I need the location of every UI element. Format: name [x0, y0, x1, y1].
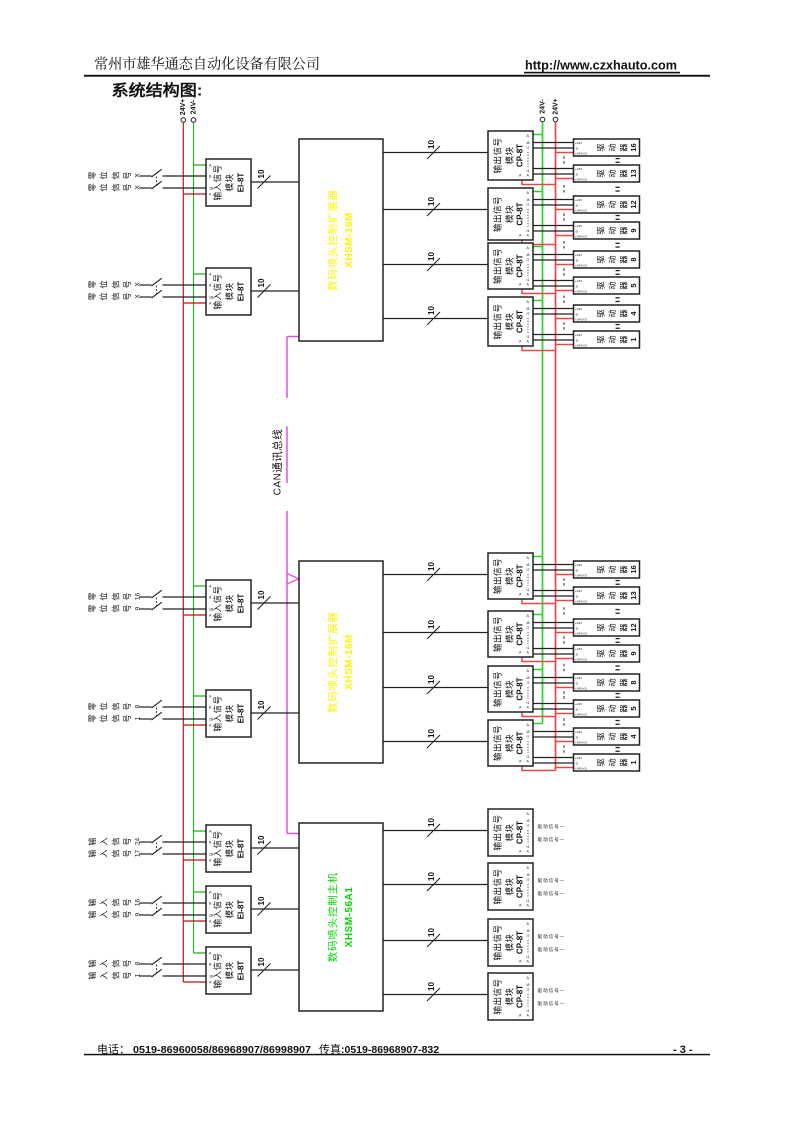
svg-text:信: 信 — [109, 592, 121, 600]
svg-text:10: 10 — [257, 169, 266, 178]
svg-text:CP-8T: CP-8T — [516, 821, 525, 844]
bus slash — [427, 626, 440, 639]
svg-text:驱动信号: 驱动信号 — [538, 836, 560, 843]
svg-text:10: 10 — [257, 835, 266, 844]
svg-text:器: 器 — [618, 200, 630, 208]
bus slash — [258, 964, 271, 977]
svg-text:+24V/+D: +24V/+D — [575, 740, 588, 744]
terminal circle 24V- (left green rail) — [191, 118, 196, 123]
bus slash — [427, 203, 440, 216]
svg-text:I1: I1 — [527, 899, 530, 903]
svg-text:1: 1 — [629, 337, 638, 341]
svg-text:零: 零 — [86, 604, 98, 612]
svg-text:I7: I7 — [527, 312, 530, 316]
svg-text:9: 9 — [135, 606, 142, 610]
wire 24V+ to driver (red) — [556, 178, 574, 180]
svg-text:动: 动 — [606, 226, 618, 234]
svg-text:动: 动 — [606, 309, 618, 317]
wire 24V+ to driver (red) — [556, 344, 574, 346]
driver A-OM4-D4 — [574, 305, 640, 322]
wire 24V+ stub from output module (red) — [522, 766, 556, 771]
svg-text:I7: I7 — [527, 681, 530, 685]
wire to driver — [533, 254, 574, 256]
svg-text:CP-8T: CP-8T — [516, 564, 525, 587]
input module A1 (EI-8T) — [206, 159, 251, 206]
svg-text:I1: I1 — [527, 646, 530, 650]
svg-text:I8: I8 — [527, 929, 530, 933]
svg-text:号: 号 — [121, 183, 133, 191]
wire 24V+ to driver (red) — [556, 741, 574, 743]
wire to driver — [533, 590, 574, 592]
svg-text:器: 器 — [618, 678, 630, 686]
input module C2 (EI-8T) — [206, 886, 251, 933]
switch contact B1b — [152, 602, 162, 610]
svg-text:输: 输 — [86, 971, 98, 979]
switch contact B1a — [152, 590, 162, 598]
wire — [163, 608, 207, 610]
svg-text:零: 零 — [86, 292, 98, 300]
svg-text:号: 号 — [121, 714, 133, 722]
svg-text:I1: I1 — [527, 169, 530, 173]
wire — [140, 841, 152, 843]
output module A-OM3 (CP-8T) — [488, 243, 533, 289]
wire to driver — [533, 731, 574, 733]
svg-text:1B: 1B — [209, 975, 214, 979]
switch contact C1a — [152, 835, 162, 843]
svg-text:动: 动 — [606, 649, 618, 657]
svg-text:模块: 模块 — [504, 567, 516, 585]
svg-text:输出信号: 输出信号 — [492, 815, 504, 851]
svg-text:模块: 模块 — [224, 174, 236, 192]
wire 24V+ stub from output module (red) — [522, 599, 556, 604]
driver A-OM3-D5 — [574, 277, 640, 294]
svg-text:+24V/+D: +24V/+D — [575, 263, 588, 267]
svg-text:信: 信 — [109, 171, 121, 179]
svg-text:1: 1 — [135, 973, 142, 977]
bus slash — [258, 176, 271, 189]
svg-text:I7: I7 — [527, 568, 530, 572]
wire 24V+ to driver (red) — [556, 767, 574, 769]
svg-text:10: 10 — [427, 252, 436, 261]
wire — [140, 963, 152, 965]
continuation dashes — [563, 296, 565, 304]
svg-text:I1: I1 — [527, 845, 530, 849]
svg-text:器: 器 — [618, 169, 630, 177]
svg-text:I7: I7 — [527, 824, 530, 828]
svg-text:号: 号 — [121, 898, 133, 906]
svg-text:动: 动 — [606, 281, 618, 289]
terminal circle 24V+ (left red rail) — [181, 118, 186, 123]
wire 24V- stub (green) — [194, 952, 207, 954]
svg-text:CP-8T: CP-8T — [516, 731, 525, 754]
svg-text:- 3 -: - 3 - — [673, 1044, 693, 1056]
svg-text:10: 10 — [427, 197, 436, 206]
ellipsis mark — [616, 747, 620, 748]
svg-text:+24V/+D: +24V/+D — [575, 712, 588, 716]
svg-text:—: — — [560, 837, 565, 842]
svg-text:I8: I8 — [527, 141, 530, 145]
svg-text:号: 号 — [121, 849, 133, 857]
wire 24V+ stub (red) — [183, 859, 206, 861]
wire to driver — [533, 147, 574, 149]
svg-text:驱动信号: 驱动信号 — [538, 1000, 560, 1007]
svg-text:器: 器 — [618, 143, 630, 151]
svg-text:动: 动 — [606, 565, 618, 573]
CAN bus tap arrow into expander 2 — [287, 574, 299, 584]
svg-text:输出信号: 输出信号 — [492, 196, 504, 232]
wire 24V- stub (green) — [194, 830, 207, 832]
wire to driver — [533, 757, 574, 759]
CAN bus stub to expander 1 — [287, 336, 300, 338]
svg-text:输: 输 — [86, 837, 98, 845]
svg-text:入: 入 — [98, 910, 110, 918]
svg-text:信: 信 — [109, 702, 121, 710]
svg-text:输入信号: 输入信号 — [212, 892, 224, 928]
svg-text:电话：: 电话： — [97, 1041, 130, 1057]
output module A-OM4 (CP-8T) — [488, 297, 533, 346]
svg-text:24V-: 24V- — [539, 99, 546, 114]
svg-text:I7: I7 — [527, 258, 530, 262]
power rail -24V left (green) — [193, 123, 195, 954]
svg-text:I8: I8 — [527, 307, 530, 311]
svg-text:驱动信号: 驱动信号 — [538, 946, 560, 953]
switch contact B2b — [152, 712, 162, 720]
svg-text:位: 位 — [98, 171, 110, 179]
wire 24V+ stub from output module (red) — [522, 346, 556, 351]
wire to driver — [533, 682, 574, 684]
svg-text:动: 动 — [606, 143, 618, 151]
wire bus to output module — [383, 574, 488, 576]
driver A-OM3-D8 — [574, 251, 640, 268]
svg-text:零: 零 — [86, 171, 98, 179]
wire to driver — [533, 225, 574, 227]
wire 24V- stub (green) — [194, 695, 207, 697]
svg-text:EI-8T: EI-8T — [237, 594, 246, 614]
wire to driver — [533, 280, 574, 282]
wire — [140, 608, 152, 610]
svg-text:EI-8T: EI-8T — [237, 961, 246, 981]
wire 24V+ to driver (red) — [556, 574, 574, 576]
wire — [163, 975, 207, 977]
svg-text:10: 10 — [257, 700, 266, 709]
wire 24V+ to driver (red) — [556, 152, 574, 154]
svg-text:动: 动 — [606, 255, 618, 263]
svg-text:+24V/+D: +24V/+D — [575, 631, 588, 635]
switch contact A2b — [152, 290, 162, 298]
bus slash — [427, 258, 440, 271]
svg-text:10: 10 — [427, 620, 436, 629]
svg-text:驱动信号: 驱动信号 — [538, 890, 560, 897]
svg-text:号: 号 — [121, 910, 133, 918]
ellipsis mark — [616, 215, 620, 216]
wire — [140, 296, 152, 298]
svg-text:+24V/+D: +24V/+D — [575, 151, 588, 155]
svg-text:10: 10 — [427, 729, 436, 738]
svg-text:输入信号: 输入信号 — [212, 831, 224, 867]
svg-text:器: 器 — [618, 704, 630, 712]
wire 24V- stub from output module (green) — [533, 614, 543, 616]
ellipsis mark — [616, 609, 620, 610]
wire 24V+ to driver (red) — [556, 318, 574, 320]
svg-text:输入信号: 输入信号 — [212, 274, 224, 310]
svg-text:CP-8T: CP-8T — [516, 931, 525, 954]
continuation dashes — [563, 578, 565, 586]
svg-text:—: — — [560, 891, 565, 896]
wire 24V+ stub from output module (red) — [522, 712, 556, 717]
svg-text:16: 16 — [135, 593, 142, 601]
driver B-OM4-D4 — [574, 728, 640, 745]
svg-text:驱: 驱 — [595, 309, 607, 317]
svg-text:8: 8 — [629, 257, 638, 261]
wire 24V+ to driver (red) — [556, 209, 574, 211]
svg-text:模块: 模块 — [504, 257, 516, 275]
svg-text:0519-86960058/86968907/8699890: 0519-86960058/86968907/86998907 — [133, 1044, 311, 1056]
output module B-OM2 (CP-8T) — [488, 611, 533, 657]
continuation dashes — [563, 718, 565, 726]
svg-text:输入信号: 输入信号 — [212, 586, 224, 622]
svg-text:10: 10 — [257, 896, 266, 905]
svg-text:10: 10 — [257, 590, 266, 599]
svg-text:驱: 驱 — [595, 623, 607, 631]
svg-text:驱: 驱 — [595, 678, 607, 686]
driver B-OM3-D8 — [574, 674, 640, 691]
wire — [140, 975, 152, 977]
svg-text:驱: 驱 — [595, 704, 607, 712]
svg-text:系统结构图:: 系统结构图: — [112, 79, 203, 101]
controller block U3 — [299, 823, 383, 1011]
svg-text:—: — — [560, 988, 565, 993]
svg-text:I7: I7 — [527, 735, 530, 739]
svg-text:器: 器 — [618, 565, 630, 573]
wire bus to output module — [383, 209, 488, 211]
svg-text:1B: 1B — [209, 296, 214, 300]
svg-text:CP-8T: CP-8T — [516, 985, 525, 1008]
output module B-OM4 (CP-8T) — [488, 720, 533, 766]
svg-text:9: 9 — [629, 228, 638, 232]
driver B-OM1-D13 — [574, 587, 640, 604]
wire 24V+ to driver (red) — [556, 235, 574, 237]
svg-text:I1: I1 — [527, 701, 530, 705]
svg-text:+24V: +24V — [575, 279, 582, 283]
wire — [163, 914, 207, 916]
svg-text:1B: 1B — [209, 608, 214, 612]
input module C3 (EI-8T) — [206, 947, 251, 994]
svg-text:入: 入 — [98, 849, 110, 857]
svg-text:1: 1 — [629, 760, 638, 764]
svg-text:信: 信 — [109, 959, 121, 967]
svg-text:10: 10 — [427, 562, 436, 571]
wire to driver — [533, 564, 574, 566]
wire to driver — [533, 173, 574, 175]
wire 24V- stub from output module (green) — [533, 556, 543, 558]
svg-text:输出信号: 输出信号 — [492, 304, 504, 340]
svg-text:驱: 驱 — [595, 591, 607, 599]
svg-text:17: 17 — [135, 850, 142, 858]
svg-text:模块: 模块 — [504, 205, 516, 223]
wire 24V- stub from output module (green) — [533, 669, 543, 671]
driver B-OM2-D9 — [574, 645, 640, 662]
wire bus to controller — [251, 908, 299, 910]
svg-text:+24V/+D: +24V/+D — [575, 343, 588, 347]
ellipsis mark — [616, 158, 620, 159]
svg-text:模块: 模块 — [504, 625, 516, 643]
svg-text:CP-8T: CP-8T — [516, 202, 525, 225]
svg-text:10: 10 — [257, 278, 266, 287]
bus slash — [427, 988, 440, 1001]
svg-text:+24V: +24V — [575, 167, 582, 171]
svg-text:+24V/+D: +24V/+D — [575, 177, 588, 181]
svg-text:驱: 驱 — [595, 255, 607, 263]
continuation dashes — [563, 745, 565, 753]
svg-text:I8: I8 — [527, 730, 530, 734]
wire bus to output module — [383, 884, 488, 886]
svg-text:I1: I1 — [527, 955, 530, 959]
svg-text:驱: 驱 — [595, 565, 607, 573]
header rule — [84, 75, 710, 77]
svg-text:+24V: +24V — [575, 647, 582, 651]
driver A-OM2-D12 — [574, 196, 640, 213]
svg-text:位: 位 — [98, 280, 110, 288]
svg-text:I8: I8 — [527, 873, 530, 877]
wire 24V- stub (green) — [194, 891, 207, 893]
svg-text:位: 位 — [98, 604, 110, 612]
svg-text:动: 动 — [606, 169, 618, 177]
svg-text:+24V: +24V — [575, 589, 582, 593]
svg-text:+24V: +24V — [575, 756, 582, 760]
svg-text:器: 器 — [618, 649, 630, 657]
wire bus to controller — [251, 602, 299, 604]
svg-text:器: 器 — [618, 732, 630, 740]
wire — [140, 853, 152, 855]
svg-text:驱: 驱 — [595, 169, 607, 177]
CAN bus stub to main controller — [287, 833, 300, 835]
wire to driver — [533, 762, 574, 764]
wire 24V- stub from output module (green) — [533, 134, 543, 136]
switch contact B2a — [152, 700, 162, 708]
svg-text:号: 号 — [121, 971, 133, 979]
wire bus to controller — [251, 712, 299, 714]
svg-text:—: — — [560, 824, 565, 829]
svg-text:驱: 驱 — [595, 335, 607, 343]
wire 24V+ to driver (red) — [556, 687, 574, 689]
svg-text:零: 零 — [86, 592, 98, 600]
terminal circle 24V+ (right red rail) — [553, 117, 558, 122]
svg-text:信: 信 — [109, 604, 121, 612]
wire to driver — [533, 204, 574, 206]
svg-text:动: 动 — [606, 200, 618, 208]
wire — [140, 284, 152, 286]
wire 24V- stub from output module (green) — [533, 191, 543, 193]
wire to driver — [533, 334, 574, 336]
wire bus to controller — [251, 847, 299, 849]
svg-text:+24V: +24V — [575, 307, 582, 311]
switch contact C2a — [152, 896, 162, 904]
wire to driver — [533, 736, 574, 738]
wire 24V+ to driver (red) — [556, 290, 574, 292]
svg-text:—: — — [560, 934, 565, 939]
svg-text:I8: I8 — [527, 983, 530, 987]
svg-text:器: 器 — [618, 591, 630, 599]
wire 24V+ to driver (red) — [556, 264, 574, 266]
svg-text:X: X — [135, 294, 142, 299]
svg-text:10: 10 — [427, 306, 436, 315]
svg-text:器: 器 — [618, 226, 630, 234]
svg-text:5: 5 — [629, 283, 638, 287]
terminal circle 24V- (right green rail) — [540, 117, 545, 122]
ellipsis mark — [616, 243, 620, 244]
svg-text:+24V: +24V — [575, 730, 582, 734]
svg-text:输出信号: 输出信号 — [492, 979, 504, 1015]
svg-text:CP-8T: CP-8T — [516, 622, 525, 645]
svg-text:驱: 驱 — [595, 281, 607, 289]
svg-text:动: 动 — [606, 623, 618, 631]
switch contact A2a — [152, 278, 162, 286]
svg-text:动: 动 — [606, 591, 618, 599]
svg-text:10: 10 — [427, 818, 436, 827]
svg-text:+24V/+D: +24V/+D — [575, 289, 588, 293]
svg-text:EI-8T: EI-8T — [237, 839, 246, 859]
output module B-OM3 (CP-8T) — [488, 666, 533, 712]
svg-text:13: 13 — [629, 591, 638, 599]
ellipsis mark — [616, 270, 620, 271]
svg-text:位: 位 — [98, 183, 110, 191]
wire — [163, 284, 207, 286]
wire — [140, 596, 152, 598]
svg-text:零: 零 — [86, 702, 98, 710]
wire to driver — [533, 285, 574, 287]
input module C1 (EI-8T) — [206, 825, 251, 872]
wire 24V+ stub from output module (red) — [522, 289, 556, 294]
svg-text:号: 号 — [121, 171, 133, 179]
svg-text:CP-8T: CP-8T — [516, 875, 525, 898]
wire — [163, 187, 207, 189]
svg-text:+24V/+D: +24V/+D — [575, 208, 588, 212]
svg-text:1B: 1B — [209, 718, 214, 722]
svg-text:零: 零 — [86, 714, 98, 722]
svg-text:9: 9 — [135, 912, 142, 916]
wire to driver — [533, 627, 574, 629]
svg-text:XHSM-16M: XHSM-16M — [344, 212, 355, 268]
svg-text:位: 位 — [98, 292, 110, 300]
continuation dashes — [563, 156, 565, 164]
wire to driver — [533, 648, 574, 650]
wire — [163, 841, 207, 843]
svg-text:器: 器 — [618, 255, 630, 263]
svg-text:+24V: +24V — [575, 253, 582, 257]
svg-text:驱动信号: 驱动信号 — [538, 933, 560, 940]
wire — [140, 914, 152, 916]
svg-text:号: 号 — [121, 292, 133, 300]
svg-text:输出信号: 输出信号 — [492, 248, 504, 284]
svg-text:模块: 模块 — [224, 840, 236, 858]
switch linkage (dashed) — [156, 708, 158, 717]
driver A-OM1-D13 — [574, 165, 640, 182]
wire 24V+ stub (red) — [183, 981, 206, 983]
svg-text:器: 器 — [618, 758, 630, 766]
wire — [163, 902, 207, 904]
bus slash — [427, 878, 440, 891]
svg-text:入: 入 — [98, 837, 110, 845]
wire to driver — [533, 313, 574, 315]
wire — [163, 175, 207, 177]
svg-text:XHSM-16M: XHSM-16M — [344, 634, 355, 690]
svg-text:号: 号 — [121, 959, 133, 967]
svg-text:模块: 模块 — [504, 934, 516, 952]
wire — [163, 853, 207, 855]
svg-text:+24V/+D: +24V/+D — [575, 573, 588, 577]
wire to driver — [533, 622, 574, 624]
svg-text:+24V: +24V — [575, 563, 582, 567]
